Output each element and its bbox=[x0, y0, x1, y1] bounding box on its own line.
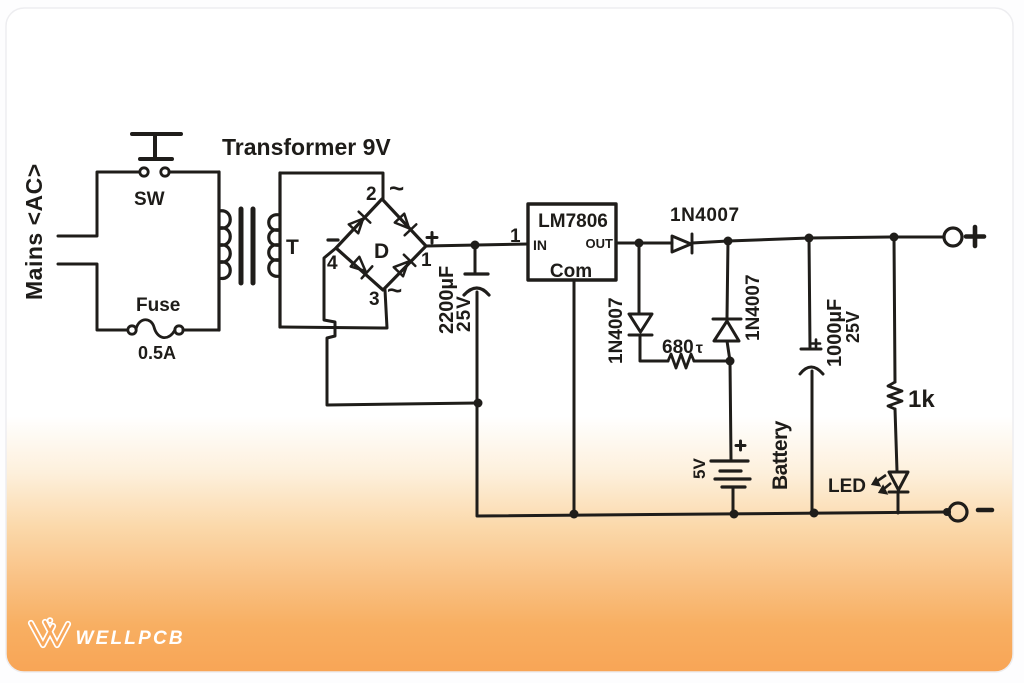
wire LED to negative rail bbox=[897, 492, 900, 513]
capacitor C1 bottom lead to negative rail bbox=[477, 292, 947, 516]
push-button actuator of SW bbox=[132, 134, 181, 159]
wire bridge node 1 to regulator input bbox=[426, 244, 528, 246]
svg-text:T: T bbox=[286, 236, 299, 259]
wire D2 to resistor R1 bbox=[640, 335, 668, 361]
wire OUT to diode D1 bbox=[616, 242, 672, 245]
capacitor C1 plates bbox=[464, 274, 489, 295]
battery + label bbox=[736, 441, 745, 450]
svg-text:1k: 1k bbox=[908, 386, 935, 413]
positive output label + bbox=[966, 227, 984, 246]
diode D1 1N4007 symbol bbox=[672, 234, 692, 253]
wire mains bottom stub to fuse bbox=[58, 264, 127, 330]
svg-text:1N4007: 1N4007 bbox=[743, 274, 764, 341]
svg-text:0.5A: 0.5A bbox=[138, 343, 176, 363]
capacitor C2 plates bbox=[800, 349, 823, 374]
svg-text:Com: Com bbox=[550, 261, 592, 282]
wire D3 to junction and battery bbox=[727, 341, 731, 459]
bridge diode on edge 4-3 bbox=[350, 256, 373, 279]
svg-text:~: ~ bbox=[389, 173, 404, 203]
battery BT1 plates bbox=[711, 461, 750, 487]
transformer T secondary winding bbox=[269, 173, 280, 327]
LED light arrows bbox=[873, 475, 891, 493]
svg-text:Battery: Battery bbox=[769, 420, 792, 490]
bridge diode on edge 4-2 bbox=[348, 212, 371, 235]
svg-text:680τ: 680τ bbox=[662, 337, 703, 358]
bridge label - bbox=[328, 238, 338, 241]
svg-text:WELLPCB: WELLPCB bbox=[76, 628, 185, 649]
svg-text:Mains <AC>: Mains <AC> bbox=[21, 163, 47, 300]
svg-text:D: D bbox=[374, 240, 389, 263]
wire R2 to LED bbox=[895, 409, 897, 471]
diode D3 1N4007 symbol bbox=[713, 319, 741, 341]
svg-text:3: 3 bbox=[369, 289, 380, 310]
wire fuse to transformer primary bbox=[183, 329, 219, 332]
wire mains top stub to switch bbox=[58, 172, 139, 236]
svg-text:4: 4 bbox=[327, 253, 338, 274]
svg-text:SW: SW bbox=[134, 189, 165, 210]
bridge diode on edge 3-1 bbox=[393, 255, 416, 278]
wire R1 to node at D3 anode bbox=[694, 360, 730, 363]
svg-text:1: 1 bbox=[421, 250, 432, 271]
transformer T core bars bbox=[241, 209, 253, 283]
wire secondary top to bridge node 2 bbox=[280, 173, 383, 199]
svg-text:1N4007: 1N4007 bbox=[606, 297, 627, 364]
capacitor C2 + label bbox=[812, 340, 820, 348]
resistor R2 1k zigzag bbox=[888, 382, 902, 409]
wire node to capacitor C2 1000uF bbox=[809, 238, 810, 347]
wire Com pin to negative rail bbox=[573, 280, 576, 514]
svg-text:OUT: OUT bbox=[586, 236, 614, 251]
switch SW contact circles bbox=[140, 168, 169, 176]
fuse F1 body bbox=[136, 320, 175, 338]
svg-text:~: ~ bbox=[387, 275, 402, 305]
svg-text:Transformer 9V: Transformer 9V bbox=[222, 134, 391, 160]
transformer T primary winding bbox=[219, 172, 230, 330]
svg-text:5V: 5V bbox=[690, 458, 709, 479]
regulator U1 LM7806 box bbox=[528, 204, 616, 280]
svg-text:Fuse: Fuse bbox=[136, 295, 180, 316]
negative output label - bbox=[978, 508, 992, 513]
negative output terminal circle bbox=[949, 503, 967, 521]
wire battery to negative rail bbox=[732, 487, 735, 514]
svg-text:IN: IN bbox=[533, 237, 547, 253]
wire secondary bottom to bridge node 3 bbox=[280, 290, 387, 328]
svg-text:2: 2 bbox=[366, 184, 377, 205]
WELLPCB logo mark bbox=[31, 618, 68, 645]
svg-text:LED: LED bbox=[828, 476, 866, 497]
bridge diode on edge 2-1 bbox=[394, 213, 417, 236]
fuse terminal circles bbox=[128, 326, 183, 334]
wire node to diode D2 bbox=[638, 243, 641, 313]
wire C2 to negative rail bbox=[811, 371, 814, 513]
wire bridge node 4 down with hop bbox=[324, 248, 478, 405]
wire switch to transformer primary bbox=[169, 171, 219, 174]
LED D4 symbol bbox=[889, 472, 908, 492]
resistor R1 680 zigzag bbox=[668, 354, 694, 368]
wire D1 to positive rail and output terminal bbox=[692, 237, 943, 243]
junction dots bbox=[471, 233, 952, 519]
wire node to diode D3 bbox=[727, 241, 728, 318]
wire node to resistor R2 1k bbox=[894, 237, 895, 382]
svg-text:LM7806: LM7806 bbox=[538, 211, 608, 232]
capacitor C1 2200uF top lead bbox=[474, 245, 477, 272]
bridge rectifier D diamond bbox=[336, 199, 426, 290]
svg-text:1N4007: 1N4007 bbox=[670, 205, 740, 226]
bridge label + bbox=[427, 233, 437, 244]
positive output terminal circle bbox=[944, 228, 962, 246]
svg-text:1: 1 bbox=[510, 226, 521, 247]
diode D2 1N4007 symbol bbox=[629, 314, 652, 335]
